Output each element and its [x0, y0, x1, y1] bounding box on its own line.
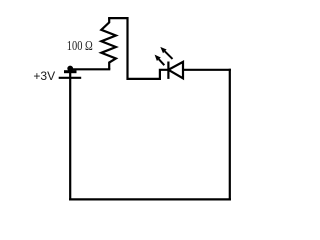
svg-text:100 Ω: 100 Ω — [67, 39, 93, 54]
battery positive plate (short bar) — [64, 70, 77, 73]
LED emission arrow 2 — [160, 47, 172, 59]
svg-text:+3V: +3V — [33, 69, 55, 83]
wire: LED anode to right side of loop — [183, 69, 231, 71]
resistor R1 (100 Ohm) vertical zigzag — [101, 18, 116, 69]
junction dot at battery positive node — [67, 66, 73, 72]
wire: left side of loop (battery negative return) — [69, 69, 71, 201]
wire: right side of loop — [229, 69, 231, 201]
wire: bottom of loop — [69, 198, 231, 200]
wire: battery positive node to resistor bottom — [70, 68, 110, 70]
wire: resistor top across, down, and step up to LED cathode — [108, 18, 168, 79]
LED D1 triangle (anode right, pointing left) — [168, 62, 183, 78]
battery negative plate (long bar) — [59, 77, 81, 79]
LED D1 cathode bar — [167, 62, 169, 79]
LED emission arrow 1 — [155, 55, 165, 66]
